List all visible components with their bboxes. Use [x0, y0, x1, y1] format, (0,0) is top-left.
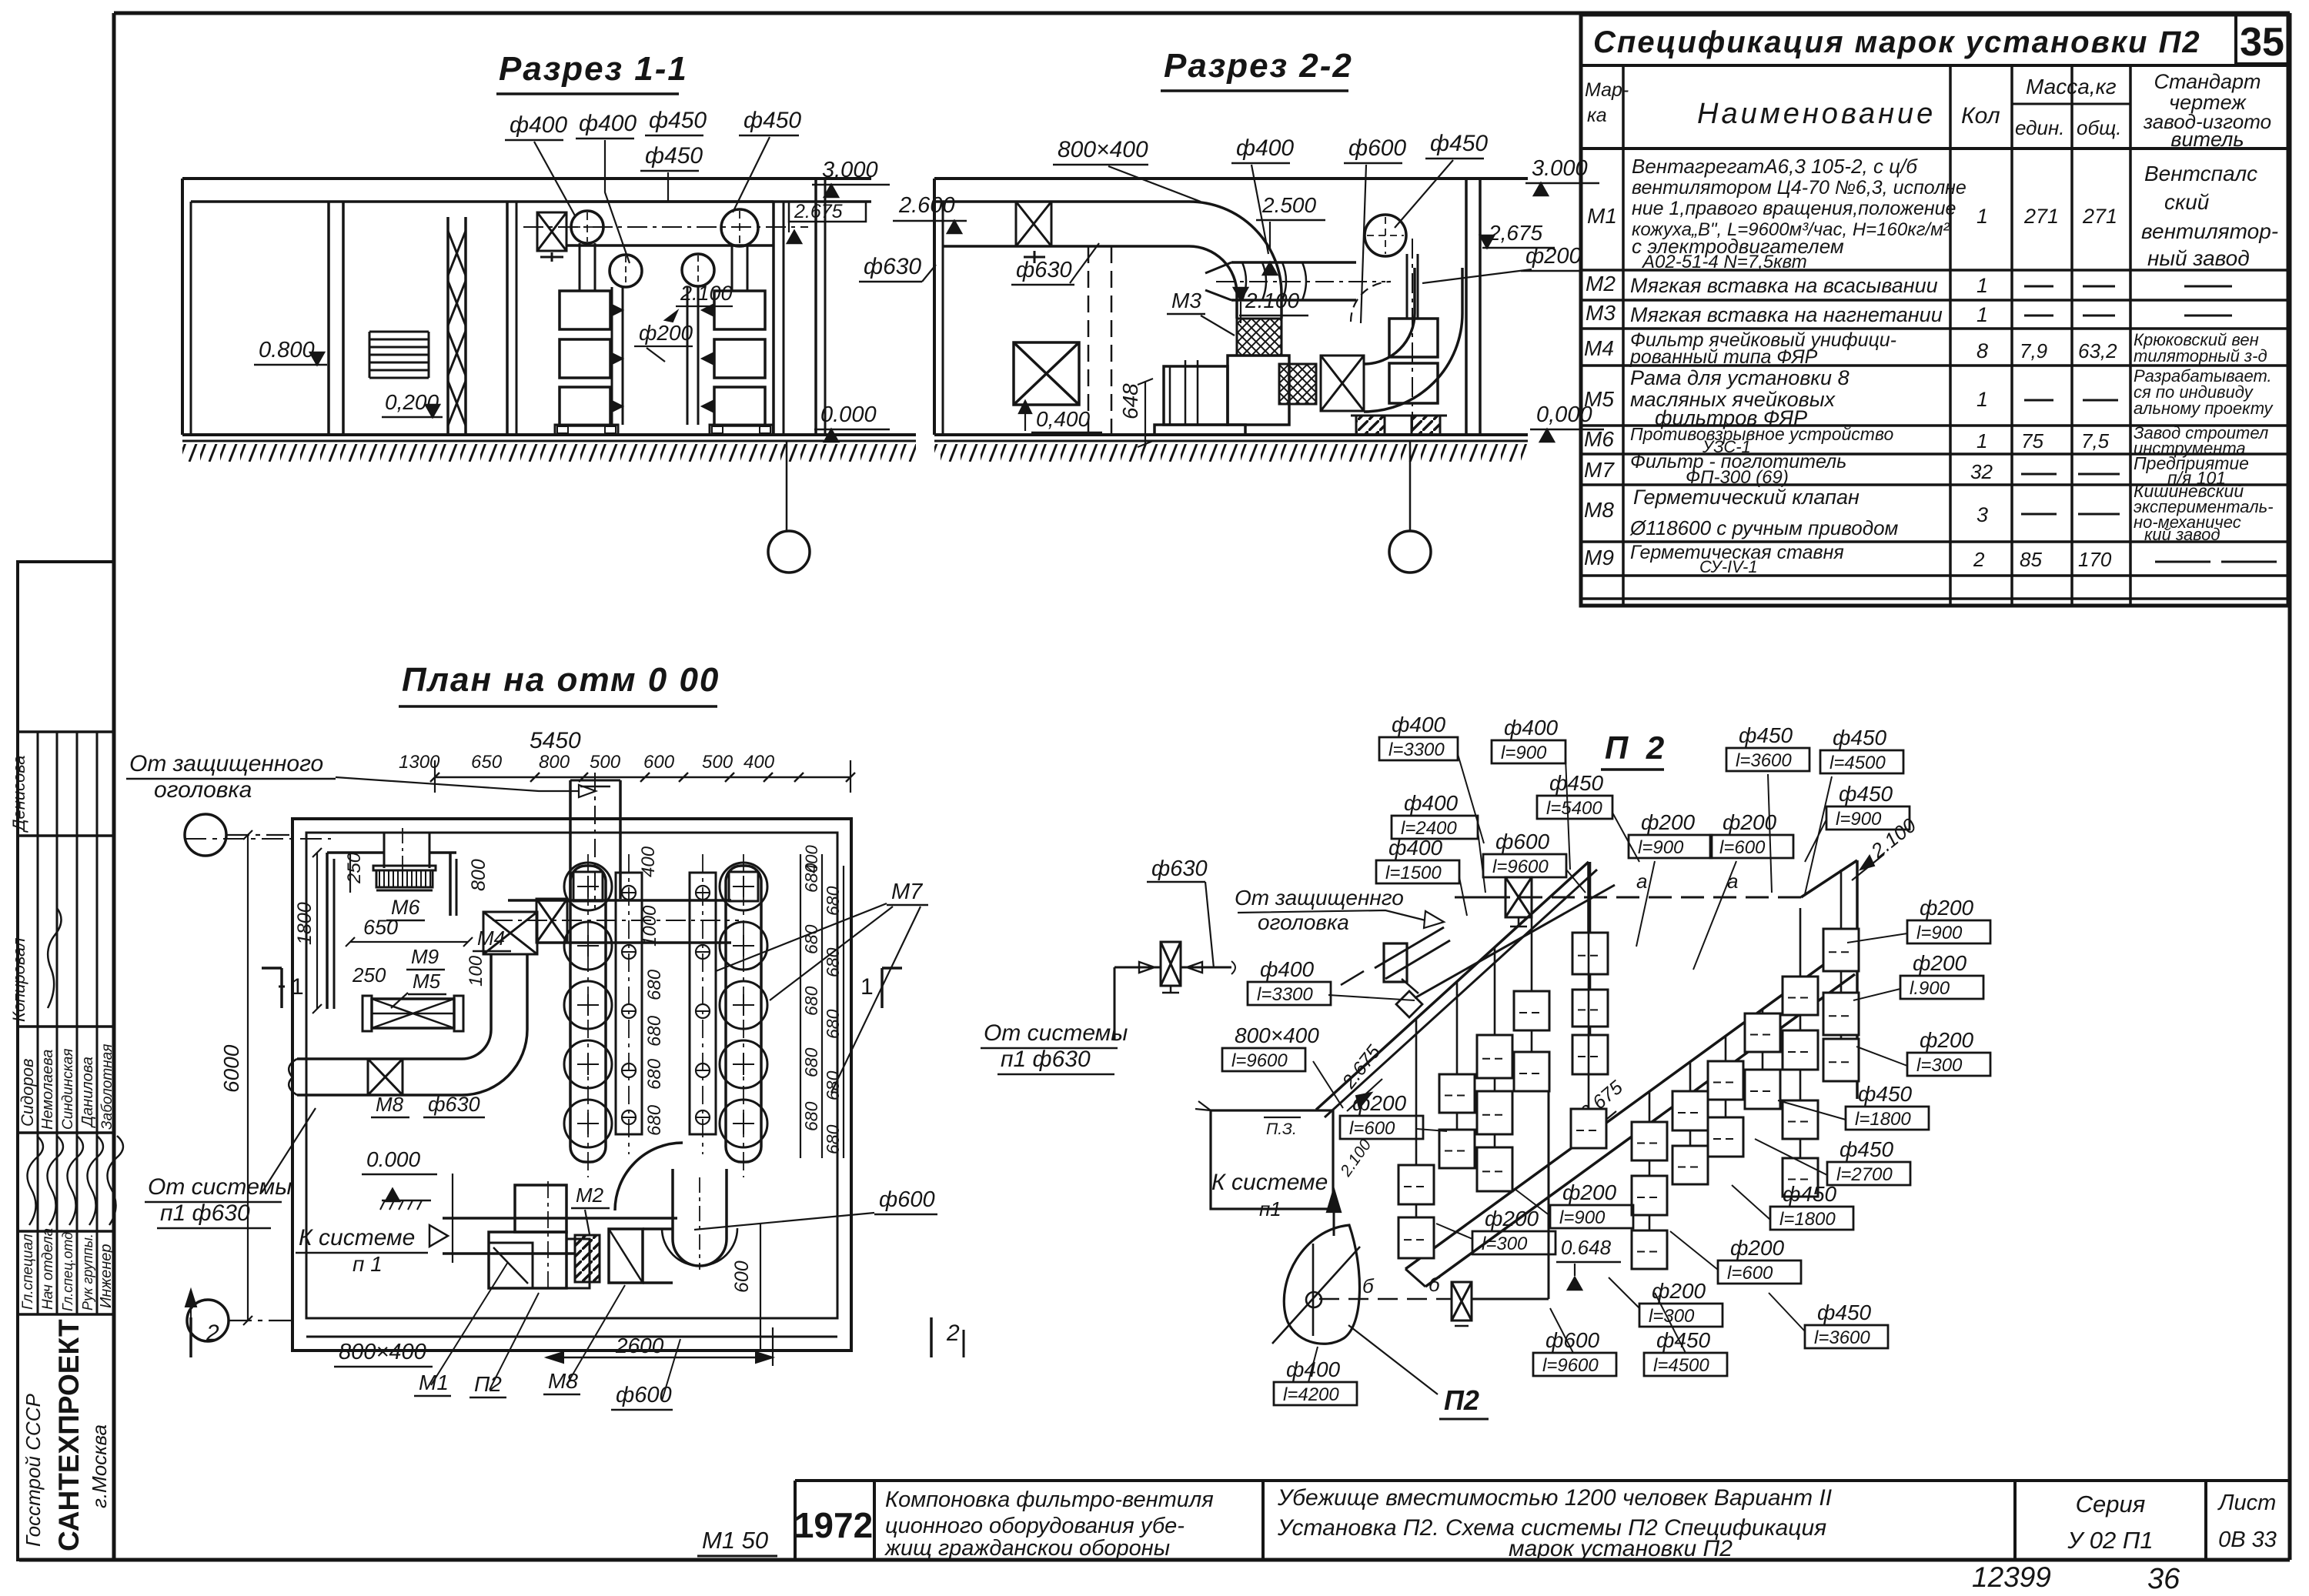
axon P2 bottom label: [1348, 1325, 1489, 1419]
big X square (2-2 room): [1014, 342, 1079, 405]
svg-text:0В 33: 0В 33: [2218, 1528, 2277, 1552]
sheet number box 35: [2236, 15, 2288, 65]
plan room outer walls: [185, 819, 851, 1351]
lab ф450-5400: [1537, 771, 1639, 862]
svg-text:СУ-IV-1: СУ-IV-1: [1699, 557, 1758, 576]
svg-text:l=3300: l=3300: [1388, 740, 1445, 760]
section 2-2 left wall: [934, 179, 943, 435]
svg-text:М1 50: М1 50: [702, 1527, 768, 1554]
right dim chains (plan): [800, 845, 844, 1158]
svg-text:500: 500: [702, 752, 733, 773]
dim 600 (plan right): [731, 1224, 760, 1351]
svg-text:М5: М5: [413, 970, 441, 993]
valve M8 on duct (plan): [368, 1059, 403, 1095]
labels M9 M5: [391, 945, 446, 1008]
elevation 3.000 (1-1 right): [812, 158, 890, 197]
svg-text:п1 ф630: п1 ф630: [160, 1200, 250, 1226]
lab ф200-600 l: [1340, 1091, 1447, 1139]
label M2 and flexible insert (plan): [571, 1184, 610, 1282]
axon inlet hardware: [1341, 927, 1450, 1017]
left block: org name: [22, 1319, 111, 1551]
svg-text:ф200: ф200: [1920, 1028, 1974, 1052]
lab ф450-900 r: [1805, 782, 1910, 862]
svg-text:М3: М3: [1586, 301, 1616, 325]
svg-text:400: 400: [638, 846, 659, 877]
svg-text:ф400: ф400: [1388, 836, 1443, 860]
svg-text:l=900: l=900: [1501, 743, 1547, 763]
svg-text:оголовка: оголовка: [154, 777, 252, 803]
lab ф400-3300 l: [1248, 957, 1415, 1005]
duct circle f400 small left: [610, 255, 642, 287]
flexible insert on discharge (2-2): [1279, 364, 1316, 404]
spec row M5: [1584, 366, 2274, 429]
svg-text:ф450: ф450: [1858, 1082, 1913, 1106]
lab ф400-900 top: [1492, 716, 1570, 870]
svg-text:32: 32: [1970, 460, 1993, 483]
section 2-2 ceiling: [934, 177, 1528, 180]
lab ф450-1800 r: [1778, 1082, 1929, 1130]
svg-text:2.600: 2.600: [898, 193, 955, 218]
elevation 0.000 (1-1): [814, 402, 890, 442]
svg-text:1: 1: [860, 974, 874, 1000]
spec row M6: [1584, 423, 2268, 458]
svg-text:0.800: 0.800: [259, 338, 315, 362]
svg-text:ф450: ф450: [1430, 131, 1488, 156]
supply duct 800x400 (2-2): [934, 202, 1189, 246]
valve M4 assembly (plan): [473, 912, 537, 954]
sub-room walls (plan): [327, 853, 456, 1009]
svg-text:2.100: 2.100: [1337, 1136, 1375, 1180]
duct to filters with elbow (plan bottom): [615, 1143, 737, 1283]
svg-text:ф200: ф200: [1641, 810, 1696, 834]
axon b-b line with valve: [1319, 1079, 1549, 1326]
svg-text:М4: М4: [1584, 336, 1614, 360]
flexible insert M3 (2-2): [1237, 319, 1281, 356]
svg-text:2.500: 2.500: [1261, 193, 1316, 217]
svg-text:800×400: 800×400: [1058, 137, 1148, 162]
svg-text:0.000: 0.000: [366, 1147, 420, 1171]
svg-text:85: 85: [2020, 548, 2042, 571]
svg-text:Противовзрывное устройство: Противовзрывное устройство: [1630, 424, 1893, 444]
svg-text:l=2700: l=2700: [1836, 1164, 1893, 1185]
svg-text:1: 1: [291, 974, 304, 1000]
svg-text:ка: ка: [1587, 105, 1607, 126]
svg-text:ние 1,правого вращения,положен: ние 1,правого вращения,положение: [1632, 198, 1956, 219]
spec row M1 ventagregat: [1587, 155, 2278, 272]
svg-text:ф400: ф400: [1236, 135, 1294, 161]
svg-text:650: 650: [363, 916, 398, 939]
filter stack M4 right (section 1-1): [702, 291, 773, 435]
svg-text:а: а: [1636, 870, 1647, 893]
lab ф450-4500 top: [1805, 726, 1903, 894]
section 1-1 plenum walls: [507, 179, 825, 435]
label 2.100 (section 1-1): [665, 282, 733, 322]
svg-text:l=9600: l=9600: [1542, 1355, 1599, 1376]
svg-text:Компоновка фильтро-вентиля: Компоновка фильтро-вентиля: [885, 1487, 1214, 1512]
svg-text:Серия: Серия: [2076, 1491, 2146, 1518]
left title block frame: [18, 562, 114, 1560]
dim 2600 (plan bottom): [546, 1327, 773, 1366]
ribbed duct f400 (2-2): [1205, 262, 1385, 300]
text: ot zashishennogo ogolovka (plan): [126, 751, 596, 803]
svg-text:п 1: п 1: [353, 1252, 383, 1276]
svg-text:l=5400: l=5400: [1546, 798, 1602, 819]
svg-text:Стандарт: Стандарт: [2154, 70, 2261, 93]
right wall (2-2): [1466, 179, 1480, 435]
elevation 2.600: [893, 193, 967, 233]
svg-text:М3: М3: [1171, 289, 1201, 312]
svg-text:l=900: l=900: [1638, 837, 1684, 858]
svg-text:3.000: 3.000: [1532, 156, 1588, 181]
svg-text:75: 75: [2021, 429, 2043, 452]
lab ф450-1800 l: [1732, 1182, 1853, 1230]
svg-text:2600: 2600: [615, 1334, 664, 1357]
plan title: [399, 661, 720, 706]
svg-text:ф450: ф450: [1833, 726, 1887, 750]
lab ф400-2400: [1392, 791, 1485, 893]
svg-text:35: 35: [2240, 20, 2284, 65]
dim 650: [346, 916, 473, 947]
svg-text:63,2: 63,2: [2078, 339, 2117, 362]
label f200 (2-2): [1422, 244, 1582, 283]
svg-text:ф630: ф630: [864, 254, 921, 279]
svg-text:ф200: ф200: [1525, 244, 1582, 269]
label f200 (section 1-1): [634, 321, 693, 362]
svg-text:680: 680: [801, 986, 821, 1016]
svg-text:l=900: l=900: [1836, 809, 1882, 830]
svg-text:П2: П2: [1444, 1384, 1479, 1416]
plan top dimension 5450: [399, 728, 855, 793]
svg-text:7,5: 7,5: [2081, 429, 2110, 452]
lab ф200-900 t: [1629, 810, 1712, 947]
svg-text:Лист: Лист: [2217, 1491, 2277, 1515]
svg-text:600: 600: [731, 1260, 753, 1293]
floor and ground hatch (1-1): [182, 435, 916, 462]
elevation 3.000 (2-2): [1525, 156, 1599, 195]
valve on distribution duct (plan): [536, 899, 567, 943]
svg-text:250: 250: [344, 852, 365, 884]
section mark 1 (top): [262, 968, 902, 1008]
svg-text:0,400: 0,400: [1036, 407, 1090, 431]
axon rotated marks 2.675: [1338, 1041, 1627, 1140]
label 2.500: [1256, 193, 1325, 275]
axon riser from K sisteme to leaf: [1327, 1136, 1375, 1236]
svg-text:800: 800: [468, 859, 490, 891]
svg-text:вентилятором Ц4-70 №6,3, испол: вентилятором Ц4-70 №6,3, исполне: [1632, 177, 1966, 199]
svg-text:680: 680: [644, 1104, 665, 1136]
svg-text:6000: 6000: [219, 1044, 243, 1093]
dim 6000 vertical (plan left): [219, 830, 252, 1325]
label f600 (plan): [694, 1187, 937, 1230]
svg-text:ф600: ф600: [1545, 1328, 1600, 1352]
svg-text:ф600: ф600: [1495, 830, 1550, 853]
valve M8 (plan, fan outlet): [609, 1229, 643, 1283]
svg-text:План на отм 0 00: План на отм 0 00: [402, 661, 720, 699]
svg-text:l=4500: l=4500: [1653, 1355, 1709, 1376]
valve stack M9 near wall (2-2): [1351, 239, 1447, 435]
svg-text:витель: витель: [2170, 128, 2244, 151]
svg-text:К системе: К системе: [1211, 1170, 1328, 1195]
axon valve on a-a: [1455, 877, 1532, 927]
svg-text:Спецификация марок установки: Спецификация марок установки П2: [1593, 25, 2201, 59]
svg-text:Синдинская: Синдинская: [60, 1049, 76, 1130]
duct elbow up to filters (plan): [462, 954, 527, 1095]
svg-text:П2: П2: [474, 1372, 502, 1396]
svg-text:б: б: [1429, 1273, 1441, 1296]
lab ф600-9600: [1483, 830, 1586, 893]
svg-text:1: 1: [1977, 388, 1988, 411]
svg-text:Мар-: Мар-: [1585, 79, 1629, 101]
svg-text:Гл.специал: Гл.специал: [20, 1234, 36, 1310]
label 2.675 (2-2): [1480, 221, 1555, 248]
axon line a-a: [1455, 860, 1857, 1099]
duct circle f400 left: [571, 211, 603, 243]
label M6: [386, 896, 425, 920]
filter column M7 b2-4: [1783, 908, 1818, 1197]
labels under plan: 800x400, M1 P2 M8 f600: [334, 1262, 680, 1410]
filter stack M4 left (section 1-1): [555, 291, 623, 435]
lab ф450-3600 top: [1726, 723, 1809, 893]
lab ф200-900 b: [1515, 1180, 1633, 1228]
svg-text:ф600: ф600: [879, 1187, 935, 1212]
svg-text:8: 8: [1977, 339, 1988, 362]
svg-text:Госстрой СССР: Госстрой СССР: [22, 1394, 45, 1547]
svg-text:250: 250: [352, 963, 386, 987]
valve on duct (2-2): [1016, 202, 1051, 263]
section 1-1 duct size labels: [505, 108, 801, 263]
section 2-2 top labels: [1053, 131, 1488, 323]
svg-text:ф400: ф400: [1392, 713, 1446, 736]
svg-text:А02-51-4 N=7,5квт: А02-51-4 N=7,5квт: [1641, 252, 1807, 272]
section 1-1 inner wall 1: [329, 202, 343, 435]
sheet name cell: [1277, 1485, 1832, 1561]
svg-text:От защищеннго: От защищеннго: [1235, 886, 1404, 910]
filter battery sleeves (plan): [570, 866, 761, 1162]
svg-text:1: 1: [1977, 429, 1987, 452]
svg-text:ф200: ф200: [1730, 1236, 1785, 1260]
svg-text:Мягкая вставка на всасывании: Мягкая вставка на всасывании: [1630, 274, 1938, 297]
svg-text:ф450: ф450: [645, 143, 703, 169]
svg-text:ф200: ф200: [1485, 1207, 1539, 1230]
lab ф200-300 br: [1609, 1277, 1723, 1327]
section 2-2 title: [1161, 47, 1353, 91]
svg-text:ф630: ф630: [1151, 856, 1208, 881]
filter circles M7 column 1: [564, 854, 612, 1177]
lab ф450-4500 b: [1644, 1293, 1727, 1376]
lab ф200-600 t: [1693, 810, 1793, 970]
spec row M7: [1584, 451, 2249, 488]
left block: signatures: [28, 1136, 124, 1225]
svg-text:Разрез 1-1: Разрез 1-1: [499, 50, 688, 88]
lab ф400-1500: [1376, 836, 1467, 916]
lab ф450-2700 r: [1755, 1137, 1910, 1185]
supply duct top (section 1-1): [523, 202, 808, 245]
elevation 0.800: [254, 338, 327, 365]
svg-text:М7: М7: [891, 880, 924, 904]
filter column M7 b2-3: [1745, 1009, 1780, 1109]
svg-text:П.З.: П.З.: [1266, 1120, 1297, 1138]
svg-text:400: 400: [802, 845, 821, 873]
svg-text:l=600: l=600: [1727, 1263, 1773, 1284]
svg-text:п1: п1: [1259, 1197, 1281, 1220]
svg-text:1800: 1800: [294, 902, 316, 945]
svg-text:Вентспалс: Вентспалс: [2144, 162, 2257, 185]
svg-text:1: 1: [1977, 274, 1988, 297]
axon K sisteme box: [1195, 1101, 1333, 1220]
svg-text:П 2: П 2: [1605, 730, 1669, 766]
svg-text:680: 680: [644, 1058, 665, 1090]
svg-text:0,000: 0,000: [1536, 402, 1592, 427]
svg-text:ФП-300 (69): ФП-300 (69): [1686, 467, 1789, 488]
lab 800x400-9600: [1222, 1023, 1343, 1108]
svg-text:Разрез 2-2: Разрез 2-2: [1164, 47, 1353, 85]
svg-text:l=300: l=300: [1649, 1306, 1695, 1327]
svg-text:ф400: ф400: [1260, 957, 1315, 981]
section mark 2 (bottom): [185, 1290, 964, 1357]
label 2.100 (2-2): [1234, 288, 1308, 323]
lab ф200-300 fr: [1856, 1028, 1990, 1076]
svg-text:У 02 П1: У 02 П1: [2067, 1527, 2153, 1554]
svg-text:l=4500: l=4500: [1829, 753, 1886, 773]
spec table headers: [1585, 70, 2271, 151]
elevation 0.000 (2-2): [1530, 402, 1604, 442]
svg-text:ф400: ф400: [1404, 791, 1459, 815]
dim 680 column between strips: [638, 846, 665, 1136]
lab ф400-4200: [1274, 1347, 1357, 1405]
svg-text:0.000: 0.000: [820, 402, 877, 427]
svg-text:Нач отдела: Нач отдела: [40, 1228, 56, 1310]
duct circle f450 right: [721, 209, 758, 246]
svg-text:ский: ский: [2164, 190, 2210, 214]
dim 1800 vertical: [294, 848, 322, 1013]
grid bubble (2-2): [1389, 441, 1431, 573]
labels M8 f630 under duct: [371, 1093, 485, 1117]
svg-text:2: 2: [946, 1321, 960, 1346]
svg-text:ф450: ф450: [649, 108, 707, 133]
svg-text:Копировал: Копировал: [9, 938, 28, 1022]
label f630 (between sections): [859, 254, 936, 282]
dim 250 vertical (top left): [344, 852, 365, 893]
svg-text:ф450: ф450: [743, 108, 801, 133]
svg-text:680: 680: [801, 1101, 821, 1131]
svg-text:б: б: [1362, 1274, 1375, 1297]
svg-text:800×400: 800×400: [1235, 1023, 1319, 1047]
svg-text:Герметический клапан: Герметический клапан: [1633, 486, 1860, 509]
svg-text:680: 680: [801, 1047, 821, 1077]
svg-text:ВентагрегатА6,3 105-2, с ц/б: ВентагрегатА6,3 105-2, с ц/б: [1632, 155, 1918, 178]
svg-text:ф200: ф200: [1352, 1091, 1407, 1115]
big elbow up (2-2): [1364, 268, 1462, 412]
svg-text:Масса,кг: Масса,кг: [2026, 75, 2117, 98]
section 1-1 title: [496, 50, 688, 94]
svg-text:общ.: общ.: [2077, 116, 2121, 139]
svg-text:2.100: 2.100: [1245, 289, 1299, 312]
filter column M7 b1-4: [1398, 1019, 1434, 1258]
svg-text:кий завод: кий завод: [2144, 525, 2220, 544]
svg-text:М6: М6: [1584, 427, 1614, 451]
filter column M7 b2-0: [1632, 1091, 1667, 1269]
svg-text:М4: М4: [477, 927, 505, 950]
lab ф200-900 fr: [1847, 896, 1990, 943]
grid bubble (1-1): [768, 441, 810, 573]
filter column M7 b2-5: [1823, 870, 1859, 1081]
svg-text:l=9600: l=9600: [1231, 1050, 1288, 1071]
svg-text:ф450: ф450: [1840, 1137, 1894, 1161]
spec table frame: [1581, 15, 2288, 606]
axon main panel diagonal: [1316, 862, 1615, 1117]
svg-text:ф200: ф200: [1920, 896, 1974, 920]
svg-text:0.648: 0.648: [1561, 1236, 1612, 1259]
svg-text:М2: М2: [1586, 272, 1616, 295]
filter column M7 b1-3: [1439, 982, 1475, 1168]
svg-text:2.675: 2.675: [794, 201, 843, 222]
svg-text:l=1500: l=1500: [1385, 863, 1442, 883]
svg-text:l=3300: l=3300: [1257, 984, 1313, 1005]
fan unit M1 (plan): [489, 1181, 590, 1293]
elevation 0,400: [1019, 401, 1102, 432]
svg-text:ф630: ф630: [428, 1093, 480, 1116]
svg-text:l=1800: l=1800: [1779, 1209, 1836, 1230]
text: ot sistemy p1 f630 (plan left): [145, 1108, 316, 1228]
svg-text:1000: 1000: [640, 905, 660, 947]
svg-text:l=3600: l=3600: [1736, 750, 1792, 771]
project name cell: [884, 1487, 1214, 1561]
svg-text:680: 680: [823, 886, 843, 916]
dashed shaft lines (2-2): [1088, 246, 1111, 435]
svg-text:l=900: l=900: [1559, 1207, 1606, 1228]
filter column M7 b1-2: [1477, 947, 1512, 1191]
svg-text:l=900: l=900: [1916, 923, 1963, 943]
svg-text:800×400: 800×400: [339, 1340, 426, 1364]
svg-text:ф400: ф400: [579, 111, 637, 136]
lab ф200-600 br: [1670, 1231, 1801, 1284]
svg-text:оголовка: оголовка: [1258, 910, 1349, 934]
svg-text:ф200: ф200: [1562, 1180, 1617, 1204]
svg-text:1972: 1972: [794, 1505, 873, 1545]
svg-text:тиляторный з-д: тиляторный з-д: [2134, 346, 2267, 366]
svg-text:ный завод: ный завод: [2147, 246, 2250, 270]
svg-text:САНТЕХПРОЕКТ: САНТЕХПРОЕКТ: [53, 1319, 85, 1551]
spec row M8: [1584, 481, 2274, 544]
filter column M7 b1-5: [1571, 862, 1606, 1148]
filter column M7 b1-1: [1514, 913, 1549, 1091]
main duct f630 from left wall (plan): [289, 1059, 462, 1095]
fan unit M1 (2-2): [1154, 356, 1289, 435]
svg-text:271: 271: [2023, 205, 2059, 228]
svg-text:Денисова: Денисова: [9, 755, 28, 833]
duct piece with X (2-2): [1321, 356, 1364, 411]
axon supply from system P1: [981, 856, 1235, 1074]
filter column M7 b2-1: [1672, 1062, 1708, 1184]
axon inlet text: ot zashishennogo ogolovka: [1235, 886, 1444, 934]
left block: role titles: [20, 1228, 115, 1311]
svg-text:l=300: l=300: [1482, 1234, 1528, 1254]
svg-text:жищ гражданскои обороны: жищ гражданскои обороны: [884, 1536, 1170, 1561]
svg-text:ф450: ф450: [1739, 723, 1793, 747]
svg-text:600: 600: [643, 752, 675, 773]
spec row M3: [1586, 301, 2232, 326]
svg-text:2,675: 2,675: [1488, 221, 1542, 245]
svg-text:рованный типа ФЯР: рованный типа ФЯР: [1629, 346, 1818, 368]
inlet duct through top wall: [570, 773, 620, 908]
svg-text:ф200: ф200: [639, 321, 693, 345]
filter circles M7 column 2: [720, 854, 767, 1177]
svg-text:г.Москва: г.Москва: [88, 1424, 111, 1508]
svg-text:2.100: 2.100: [680, 282, 733, 305]
axon mark 0.648: [1556, 1236, 1621, 1290]
svg-text:Кол: Кол: [1961, 103, 2000, 129]
svg-text:Ø118600 с ручным приводом: Ø118600 с ручным приводом: [1629, 516, 1899, 539]
